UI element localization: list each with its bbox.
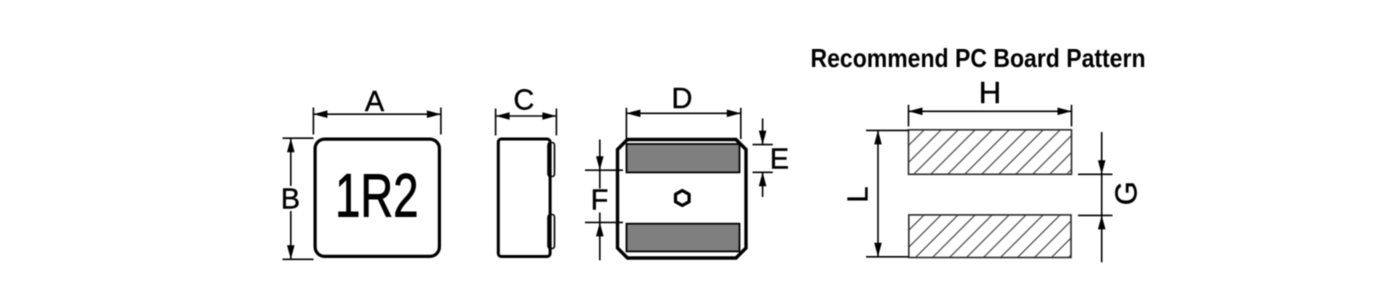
label D bbox=[672, 83, 693, 115]
dimension F extension lines bbox=[585, 170, 623, 222]
dimension D extension lines bbox=[626, 108, 740, 139]
dimension G extension lines bbox=[1078, 174, 1113, 215]
svg-text:L: L bbox=[843, 186, 875, 202]
label C bbox=[513, 85, 534, 117]
label G bbox=[1108, 181, 1143, 205]
svg-text:1R2: 1R2 bbox=[335, 162, 418, 230]
label L bbox=[843, 186, 875, 202]
dimension L extension lines bbox=[866, 130, 909, 256]
dimension C extension lines bbox=[496, 109, 557, 136]
side terminal top bbox=[548, 143, 555, 177]
dimension L line bbox=[874, 130, 882, 256]
svg-text:G: G bbox=[1108, 181, 1143, 205]
dimension A extension lines bbox=[313, 108, 441, 135]
label A bbox=[365, 86, 385, 118]
pcb bottom pad hatched bbox=[909, 215, 1071, 258]
label E bbox=[770, 143, 789, 175]
center hole bbox=[676, 191, 690, 206]
dimension G line bbox=[1098, 132, 1106, 262]
label B bbox=[281, 184, 300, 216]
svg-text:H: H bbox=[979, 75, 1001, 110]
front view body bbox=[315, 139, 439, 256]
dimension E line bbox=[759, 119, 767, 198]
dimension H line bbox=[909, 108, 1072, 116]
svg-text:E: E bbox=[770, 143, 789, 175]
title Recommend PC Board Pattern bbox=[811, 43, 1146, 73]
label F bbox=[591, 185, 609, 217]
dimension B line bbox=[287, 138, 295, 259]
dimension H extension lines bbox=[909, 105, 1072, 127]
dimension C line bbox=[496, 112, 557, 120]
svg-text:C: C bbox=[513, 85, 534, 117]
svg-text:B: B bbox=[281, 184, 300, 216]
dimension D line bbox=[626, 110, 740, 118]
pcb top pad hatched bbox=[909, 130, 1072, 175]
side view body bbox=[498, 139, 550, 257]
svg-text:Recommend PC Board Pattern: Recommend PC Board Pattern bbox=[811, 43, 1146, 73]
bottom view top pad bbox=[627, 144, 740, 172]
svg-text:D: D bbox=[672, 83, 693, 115]
marking 1R2 bbox=[335, 162, 418, 230]
bottom view body bbox=[618, 140, 747, 259]
bottom view bottom pad bbox=[627, 224, 740, 252]
side terminal bottom bbox=[548, 215, 555, 249]
dimension A line bbox=[313, 110, 441, 118]
label H bbox=[979, 75, 1001, 110]
dimension F line bbox=[596, 140, 604, 261]
dimension B extension lines bbox=[283, 138, 314, 259]
dimension E extension lines bbox=[753, 145, 773, 173]
svg-text:F: F bbox=[591, 185, 609, 217]
svg-text:A: A bbox=[365, 86, 385, 118]
